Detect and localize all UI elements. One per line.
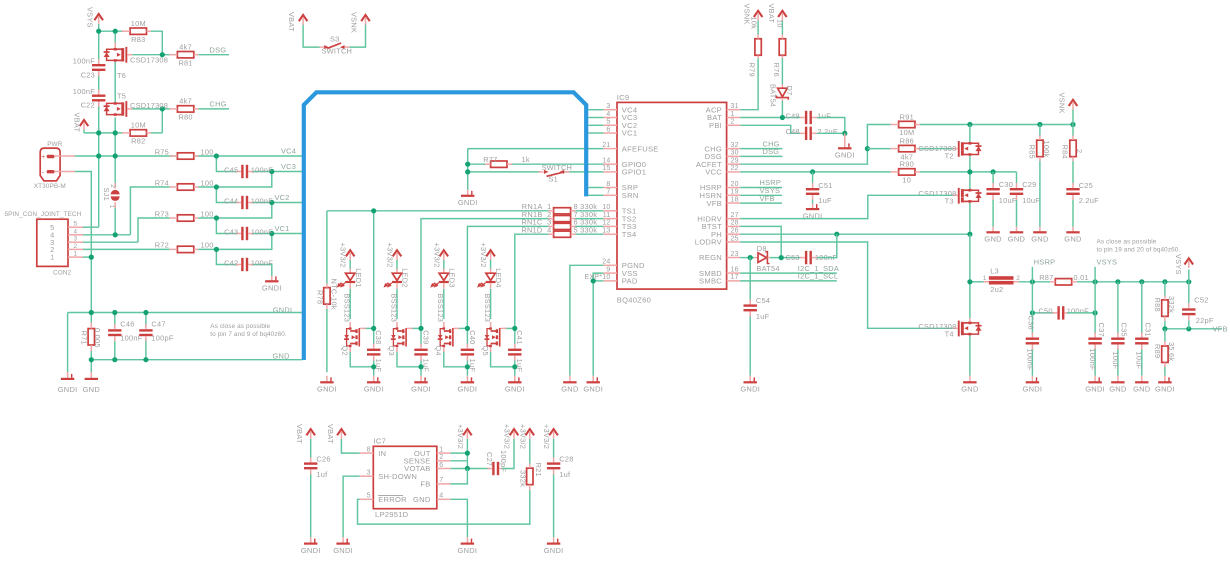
svg-text:VFB: VFB xyxy=(760,194,775,203)
wire PH row xyxy=(740,233,970,235)
junction VFB-C52 xyxy=(1186,326,1191,331)
pin 4 IC7 right xyxy=(437,498,451,500)
svg-text:13: 13 xyxy=(602,227,610,234)
svg-text:SH-DOWN: SH-DOWN xyxy=(378,472,417,481)
supply arrow VSYS right xyxy=(1188,270,1190,282)
svg-text:2: 2 xyxy=(439,454,443,461)
ground GND under C31 xyxy=(1141,376,1143,383)
svg-text:1k: 1k xyxy=(522,155,530,164)
supply arrow +3V3/2 at OUT xyxy=(463,429,472,435)
ground GNDI under R78 xyxy=(326,376,328,383)
svg-text:Q2: Q2 xyxy=(340,346,349,356)
junction VBAT-T5 xyxy=(113,130,118,135)
wire C35 column xyxy=(1117,282,1119,335)
wire R72 left from CON2 pin2 xyxy=(83,248,170,250)
svg-text:C38: C38 xyxy=(374,330,383,344)
ground GNDI under C42 xyxy=(271,276,273,281)
svg-text:D7: D7 xyxy=(785,86,794,96)
svg-text:1: 1 xyxy=(50,253,54,262)
svg-text:5: 5 xyxy=(74,221,78,228)
svg-text:17: 17 xyxy=(731,274,739,281)
svg-text:GND: GND xyxy=(984,235,1002,244)
svg-text:VC4: VC4 xyxy=(281,147,296,156)
pin 19 HSRN xyxy=(727,194,741,196)
svg-text:332k: 332k xyxy=(1167,296,1176,313)
svg-text:2.2uF: 2.2uF xyxy=(1079,196,1099,205)
wire GNDI row left drop xyxy=(67,313,69,373)
supply arrow +3V3/2 LED2 xyxy=(393,250,402,256)
svg-text:4: 4 xyxy=(606,111,610,118)
supply arrow +3V3/2 LED4 xyxy=(486,250,495,256)
junction VSYS-R88 xyxy=(1162,279,1167,284)
svg-text:T5: T5 xyxy=(117,92,126,101)
jumper SJ1 xyxy=(114,183,116,189)
wire VOTAB row to C27 xyxy=(450,468,489,470)
svg-text:10: 10 xyxy=(775,19,784,28)
svg-text:GNDI: GNDI xyxy=(58,385,78,394)
resistor R79 xyxy=(755,39,761,56)
svg-text:GNDI: GNDI xyxy=(505,385,525,394)
svg-text:100nF: 100nF xyxy=(251,197,273,206)
junction PWR+ rail A xyxy=(96,153,101,158)
svg-text:VBAT: VBAT xyxy=(295,424,304,444)
capacitor C40 xyxy=(461,349,474,351)
svg-text:R90: R90 xyxy=(900,160,914,169)
wire R76 to D7 xyxy=(781,58,783,84)
pin 29 ACFET xyxy=(727,163,741,165)
net label DSG stub xyxy=(740,155,782,157)
svg-text:+3V3/2: +3V3/2 xyxy=(386,243,395,268)
wire R74 node down to C44 xyxy=(216,187,236,203)
wire VC4 stub xyxy=(588,109,603,111)
junction GND-C47 xyxy=(143,357,148,362)
svg-text:GND: GND xyxy=(961,385,979,394)
svg-text:25: 25 xyxy=(731,235,739,242)
svg-text:As close as possible: As close as possible xyxy=(210,323,270,330)
junction REGN-C54 xyxy=(748,255,753,260)
svg-text:1uF: 1uF xyxy=(468,359,477,373)
svg-text:C40: C40 xyxy=(468,330,477,344)
svg-text:GND: GND xyxy=(1064,235,1082,244)
svg-text:S3: S3 xyxy=(330,35,340,44)
ground GNDI under R89 xyxy=(1164,376,1166,383)
svg-text:22: 22 xyxy=(731,165,739,172)
junction VFB-R88 xyxy=(1162,326,1167,331)
junction GNDI-C47 xyxy=(143,310,148,315)
wire R79 top to VSNK arrow xyxy=(757,21,759,35)
ground GND under C25 xyxy=(1072,227,1074,233)
svg-text:GND: GND xyxy=(83,385,101,394)
pin 3 IC7 left xyxy=(360,475,374,477)
svg-text:29: 29 xyxy=(731,157,739,164)
svg-text:GNDI: GNDI xyxy=(544,546,564,555)
capacitor C37 xyxy=(1088,338,1101,340)
svg-text:100nF: 100nF xyxy=(251,259,273,268)
capacitor C30 xyxy=(992,172,994,183)
svg-text:T3: T3 xyxy=(945,197,954,206)
svg-text:C29: C29 xyxy=(1022,180,1036,189)
wire C48 to GNDI col xyxy=(817,132,845,134)
junction GNDI-R71 xyxy=(89,310,94,315)
svg-text:1uF: 1uF xyxy=(756,312,770,321)
svg-text:TS4: TS4 xyxy=(622,230,637,239)
net label CHG stub xyxy=(740,148,782,150)
svg-text:24: 24 xyxy=(602,259,610,266)
junction VSYS-C35 xyxy=(1115,279,1120,284)
ground GNDI under C36 xyxy=(1031,376,1033,383)
wire LED2 to Q3 xyxy=(396,289,398,319)
wire VBAT to C26 xyxy=(310,439,312,458)
junction OUT xyxy=(465,451,470,456)
svg-text:R72: R72 xyxy=(155,241,169,250)
svg-text:100nF: 100nF xyxy=(1088,349,1097,371)
ground GND under T4 xyxy=(969,376,971,383)
svg-text:GND: GND xyxy=(561,385,579,394)
ground GND under C30 xyxy=(992,227,994,233)
wire GPIO1 row xyxy=(468,171,541,173)
svg-text:VC1: VC1 xyxy=(275,224,290,233)
svg-text:VBAT: VBAT xyxy=(287,12,296,32)
svg-text:T2: T2 xyxy=(945,151,954,160)
svg-text:10M: 10M xyxy=(131,19,146,28)
svg-text:100: 100 xyxy=(201,147,214,156)
svg-text:C48: C48 xyxy=(785,127,799,136)
supply arrow VBAT xyxy=(80,120,89,126)
junction rail-VSNK xyxy=(1070,122,1075,127)
supply arrow VSNK at S3 xyxy=(361,15,370,21)
supply arrow VSNK at R79 xyxy=(754,11,763,17)
svg-text:VBAT: VBAT xyxy=(73,113,82,133)
wire LED1 to Q2 xyxy=(349,289,351,319)
svg-text:32: 32 xyxy=(731,142,739,149)
wire C50 to C37 col xyxy=(1067,312,1095,314)
svg-text:VBAT: VBAT xyxy=(767,4,776,24)
LED LED2 xyxy=(396,269,398,274)
svg-text:1uf: 1uf xyxy=(316,470,328,479)
transistor T3 xyxy=(968,189,971,192)
wire S3 switch loop xyxy=(303,25,319,48)
svg-text:1uF: 1uF xyxy=(515,359,524,373)
resistor R73 xyxy=(177,215,193,221)
wire TS2 row RN1B xyxy=(421,219,549,329)
wire CHG row xyxy=(132,108,169,110)
svg-text:9: 9 xyxy=(606,266,610,273)
wire +3V3/2 to LED4 xyxy=(490,259,492,269)
svg-text:100k: 100k xyxy=(1042,141,1051,158)
svg-text:Q4: Q4 xyxy=(434,346,443,356)
pin 24 PGND xyxy=(603,264,617,266)
svg-text:4: 4 xyxy=(439,493,443,500)
svg-text:L3: L3 xyxy=(990,266,999,275)
svg-text:GNDI: GNDI xyxy=(333,546,353,555)
ground GNDI bottom-left xyxy=(67,372,69,379)
svg-text:IC9: IC9 xyxy=(617,93,630,102)
junction VSS-PAD xyxy=(591,278,596,283)
svg-text:C27: C27 xyxy=(485,452,494,466)
svg-text:VBAT: VBAT xyxy=(326,424,335,444)
svg-text:4: 4 xyxy=(74,228,78,235)
wire PAD to GNDI xyxy=(593,280,603,282)
junction VOTAB xyxy=(465,466,470,471)
junction VC1 node xyxy=(269,231,274,236)
svg-text:C39: C39 xyxy=(421,330,430,344)
transistor Q3 xyxy=(396,322,398,329)
pin 3 VC4 xyxy=(603,109,617,111)
svg-text:1: 1 xyxy=(439,446,443,453)
ground GNDI cluster 4 xyxy=(514,376,516,383)
wire R71 bottom xyxy=(90,351,92,372)
svg-text:31: 31 xyxy=(731,103,739,110)
resistor R85 xyxy=(1039,125,1041,136)
ground GNDI under C28 xyxy=(553,537,555,543)
capacitor C29 xyxy=(1016,172,1018,183)
wire D8 to BTST node xyxy=(770,257,801,259)
svg-text:C47: C47 xyxy=(151,319,165,328)
wire GPIO0 row xyxy=(468,163,491,165)
junction rail-T2 xyxy=(967,122,972,127)
ground GNDI cluster 2 xyxy=(420,376,422,383)
LED LED1 xyxy=(349,269,351,274)
junction PH-T3T4 xyxy=(967,232,972,237)
switch S3 xyxy=(320,46,325,48)
wire GNDI row xyxy=(68,312,303,314)
wire VSNK arrow col xyxy=(1072,110,1074,125)
svg-text:FB: FB xyxy=(420,480,430,489)
wire TS4 row RN1D xyxy=(515,234,549,328)
capacitor C43 xyxy=(241,227,243,240)
junction VC2 node xyxy=(269,200,274,205)
svg-text:3: 3 xyxy=(606,103,610,110)
svg-text:R91: R91 xyxy=(900,112,914,121)
wire Q2 source xyxy=(350,352,374,367)
pin 18 VFB xyxy=(727,202,741,204)
svg-text:T6: T6 xyxy=(117,71,126,80)
ground GNDI under C51 xyxy=(812,200,814,204)
ground GNDI under C37 xyxy=(1094,376,1096,383)
pin 2 PBI xyxy=(727,124,741,126)
junction R72 out xyxy=(214,247,219,252)
svg-text:+3V3/2: +3V3/2 xyxy=(542,424,551,449)
wire R91 to T2 rail xyxy=(920,124,1073,126)
wire R72 node down to C42 xyxy=(216,249,236,264)
wire C50 row xyxy=(1032,312,1054,314)
svg-text:LED3: LED3 xyxy=(447,268,456,288)
wire VBAT row xyxy=(83,130,85,133)
resistor R84 xyxy=(1072,125,1074,136)
svg-text:CHG: CHG xyxy=(210,100,227,109)
junction HSRP node xyxy=(1030,279,1035,284)
svg-text:GND: GND xyxy=(1109,385,1127,394)
svg-text:12: 12 xyxy=(602,220,610,227)
junction DSG gate node xyxy=(160,52,165,57)
transistor Q5 xyxy=(490,322,492,329)
pin 25 LODRV xyxy=(727,241,741,243)
svg-text:+3V3/2: +3V3/2 xyxy=(432,243,441,268)
junction VSYS-C52 xyxy=(1186,279,1191,284)
wire TS3 row RN1C xyxy=(467,226,548,328)
junction GNDI-C46 xyxy=(112,310,117,315)
supply arrow +3V3/2 LED1 xyxy=(346,250,355,256)
junction source C40 xyxy=(465,364,470,369)
svg-text:10uF: 10uF xyxy=(1135,352,1144,370)
wire C53 to PH xyxy=(817,234,837,257)
svg-text:R86: R86 xyxy=(900,136,914,145)
svg-text:VFB: VFB xyxy=(1213,324,1228,333)
junction source C39 xyxy=(418,364,423,369)
svg-text:VSYS: VSYS xyxy=(1174,254,1183,275)
net label VFB pin18 xyxy=(740,202,782,204)
svg-text:1: 1 xyxy=(74,251,78,258)
net label I2C_1_SCL xyxy=(740,280,837,282)
ground GND under R85 xyxy=(1039,227,1041,233)
junction GND-C46 xyxy=(112,357,117,362)
svg-text:C26: C26 xyxy=(316,454,330,463)
svg-text:SRN: SRN xyxy=(622,191,639,200)
svg-text:2: 2 xyxy=(1016,275,1020,282)
capacitor C44 xyxy=(241,196,243,209)
svg-text:to pin 7 and 9 of bq40z60.: to pin 7 and 9 of bq40z60. xyxy=(210,331,287,338)
transistor Q2 xyxy=(349,322,351,329)
wire R86 to T2 gate xyxy=(920,148,953,150)
wire ERROR loop to R21 xyxy=(358,490,530,524)
IC U IC9 BQ40Z60 xyxy=(617,102,727,289)
svg-text:10uF: 10uF xyxy=(1111,352,1120,370)
pin 1 IC7 right xyxy=(437,452,451,454)
svg-text:HSRP: HSRP xyxy=(1034,258,1056,267)
svg-text:C22: C22 xyxy=(81,101,95,110)
svg-text:GNDI: GNDI xyxy=(458,546,478,555)
svg-text:100nF: 100nF xyxy=(251,228,273,237)
svg-text:+3V3/2: +3V3/2 xyxy=(456,424,465,449)
wire GND pin to GNDI xyxy=(450,499,467,537)
wire Q3 source xyxy=(397,352,421,367)
ground GNDI under R77 xyxy=(467,190,469,196)
ground GND under C29 xyxy=(1016,227,1018,233)
capacitor C39 xyxy=(414,349,427,351)
svg-text:2: 2 xyxy=(74,243,78,250)
svg-text:10M: 10M xyxy=(131,121,146,130)
wire VCC row xyxy=(740,171,890,173)
wire VSS to PAD node xyxy=(593,273,603,281)
wire Q5 source xyxy=(491,352,515,367)
wire R77 GND column xyxy=(467,149,469,190)
svg-text:C54: C54 xyxy=(756,296,770,305)
svg-text:2u2: 2u2 xyxy=(990,285,1003,294)
svg-text:35,6k: 35,6k xyxy=(1167,342,1176,361)
svg-text:DSG: DSG xyxy=(763,147,780,156)
svg-text:1: 1 xyxy=(983,275,987,282)
wire C54 column xyxy=(749,258,751,302)
connector PWR XT30PB-M xyxy=(40,148,60,181)
svg-text:R71: R71 xyxy=(80,331,89,345)
wire Q2 gate to node xyxy=(365,327,374,329)
wire OUT-VOTAB vertical xyxy=(466,439,468,469)
svg-text:C46: C46 xyxy=(120,319,134,328)
ground GNDI under SH-DOWN xyxy=(342,537,344,543)
pin 21 AFEFUSE xyxy=(603,148,617,150)
wire PWR+ to bus VC4 row xyxy=(75,155,303,157)
wire C52 column xyxy=(1188,282,1190,304)
svg-text:C50: C50 xyxy=(1038,307,1052,316)
ground GND bottom-left xyxy=(90,372,92,379)
wire VSYS rail vertical xyxy=(98,24,100,63)
pin 11 TS2 xyxy=(603,218,617,220)
svg-text:EXP*10: EXP*10 xyxy=(584,274,610,281)
diode D7 BAT54 xyxy=(781,85,783,89)
svg-text:1uF: 1uF xyxy=(374,359,383,373)
wire Q4 gate to node xyxy=(459,327,468,329)
wire R73 left xyxy=(138,218,170,242)
transistor T5 xyxy=(114,102,117,105)
wire VC2 row to bus xyxy=(253,202,302,204)
wire VBAT to IN xyxy=(341,439,359,453)
resistor R75 xyxy=(177,153,193,159)
resistor R21 xyxy=(527,468,533,485)
svg-text:R73: R73 xyxy=(155,209,169,218)
svg-text:PAD: PAD xyxy=(622,277,638,286)
svg-text:100nF: 100nF xyxy=(251,166,273,175)
wire LODRV to T4 gate xyxy=(740,242,952,328)
svg-text:XT30PB-M: XT30PB-M xyxy=(34,183,66,190)
svg-text:SWITCH: SWITCH xyxy=(322,47,353,56)
pin 1 BAT xyxy=(727,116,741,118)
svg-text:SMBC: SMBC xyxy=(699,277,722,286)
wire CON2 pin1 to GND column xyxy=(83,256,91,258)
capacitor C35 xyxy=(1111,338,1124,340)
svg-text:VC2: VC2 xyxy=(275,193,290,202)
ground GNDI under C48 xyxy=(844,133,846,148)
wire REGN row xyxy=(740,257,754,259)
pin 5 VC2 xyxy=(603,124,617,126)
junction ACFET-R86 xyxy=(865,146,870,151)
svg-text:GND: GND xyxy=(1133,385,1151,394)
LED LED4 xyxy=(490,269,492,274)
wire +3V3/2 to LED2 xyxy=(396,259,398,269)
svg-text:1uf: 1uf xyxy=(559,470,571,479)
wire VC3 stub xyxy=(588,117,603,119)
wire ACFET to R91/R86 xyxy=(740,125,890,165)
svg-text:C45: C45 xyxy=(224,166,238,175)
svg-text:C41: C41 xyxy=(515,330,524,344)
svg-text:R82: R82 xyxy=(131,137,145,146)
svg-text:C36: C36 xyxy=(1026,316,1035,330)
capacitor C26 xyxy=(304,462,317,464)
transistor T4 xyxy=(968,322,971,325)
wire R88 column xyxy=(1164,282,1166,296)
pin 22 VCC xyxy=(727,171,741,173)
wire TS1 row RN1A xyxy=(327,210,549,212)
resistor R80 xyxy=(177,106,193,112)
svg-text:LP2951D: LP2951D xyxy=(375,510,409,519)
wire D7 to BAT node xyxy=(781,101,783,118)
wire VC1 row to bus xyxy=(253,233,302,235)
svg-text:C42: C42 xyxy=(224,259,238,268)
ground GNDI under C54 xyxy=(749,376,751,383)
svg-text:R77: R77 xyxy=(483,155,497,164)
wire C38 column xyxy=(373,328,375,345)
wire LED4 to Q5 xyxy=(490,289,492,319)
wire AFEFUSE xyxy=(468,148,604,150)
wire T2 drain xyxy=(969,125,971,143)
svg-text:PBI: PBI xyxy=(709,121,722,130)
svg-text:Q3: Q3 xyxy=(387,346,396,356)
svg-text:+3V3/2: +3V3/2 xyxy=(518,424,527,449)
capacitor C49 xyxy=(805,111,807,124)
svg-text:C49: C49 xyxy=(785,111,799,120)
capacitor C38 xyxy=(367,349,380,351)
svg-text:100nF: 100nF xyxy=(73,56,95,65)
wire ACP to R79 xyxy=(740,58,758,109)
